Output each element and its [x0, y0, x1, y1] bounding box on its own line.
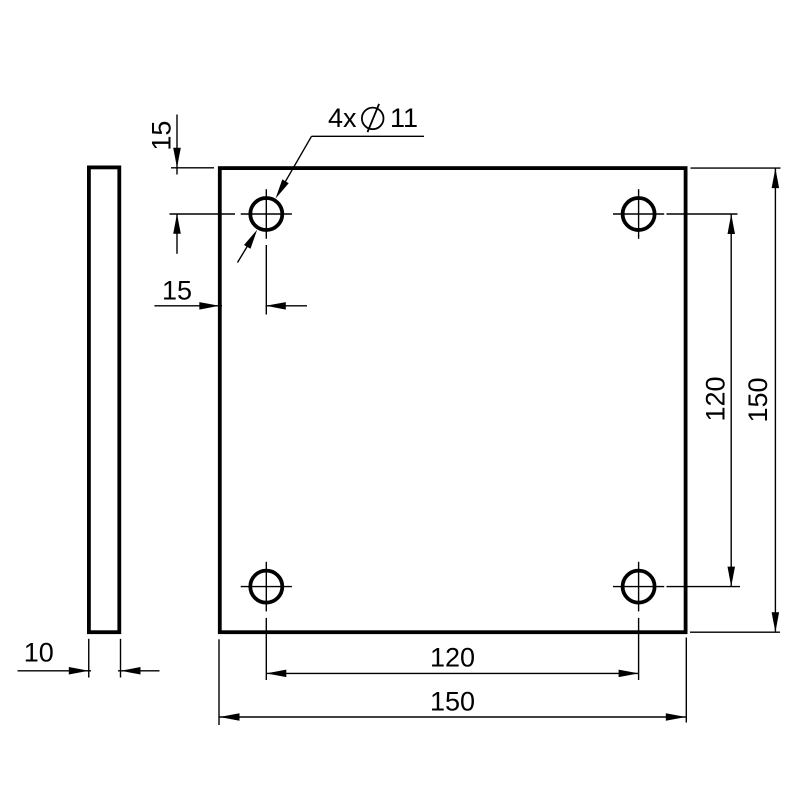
svg-text:15: 15 [147, 121, 177, 151]
svg-text:11: 11 [390, 103, 418, 133]
svg-text:120: 120 [430, 642, 475, 672]
svg-text:150: 150 [743, 377, 773, 422]
svg-text:10: 10 [24, 637, 54, 667]
svg-text:150: 150 [430, 687, 475, 717]
svg-text:4x: 4x [328, 103, 357, 133]
svg-text:15: 15 [162, 276, 192, 306]
svg-text:120: 120 [701, 376, 731, 421]
